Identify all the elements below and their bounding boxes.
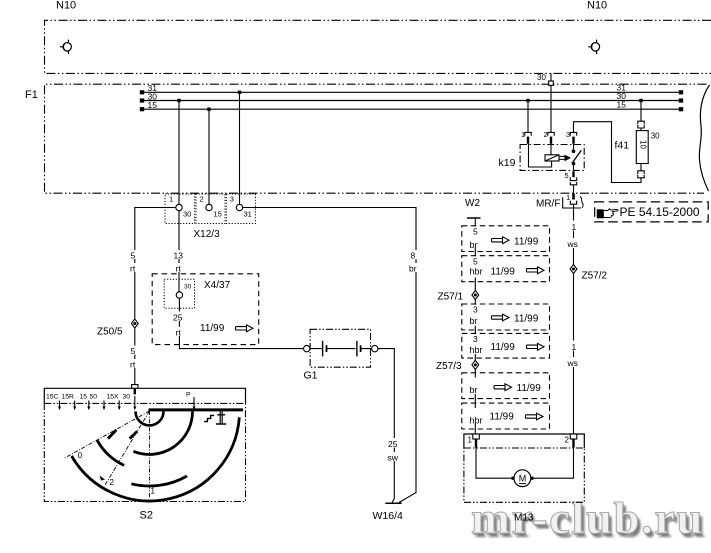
svg-text:f41: f41 [615,140,630,152]
svg-text:11/99: 11/99 [514,314,539,325]
svg-text:15: 15 [80,394,88,401]
svg-text:5: 5 [131,251,136,261]
splice Z57/2 [570,264,577,273]
svg-text:rt: rt [176,328,182,338]
wire label ws [567,238,581,249]
wire Z57/3 to box5 [474,370,476,373]
svg-text:rt: rt [176,264,182,274]
splice box 6 (hbr) [462,403,550,429]
svg-text:15: 15 [617,100,627,110]
S2 contact dash r32 [130,431,138,438]
svg-text:5: 5 [473,227,478,237]
splice box 4 (hbr) [462,333,550,358]
svg-text:br: br [470,385,478,395]
svg-text:P: P [186,392,191,399]
G1 left terminal circle [304,345,310,351]
S2 pointer mark near 2 [100,476,106,481]
svg-text:3: 3 [566,130,570,139]
wire Z50/5 to S2 terminal 30 [134,328,136,384]
S2 terminal arrows [58,396,196,410]
svg-text:11/99: 11/99 [514,237,539,248]
G1 right terminal circle [372,345,378,351]
wire bus15 to X12/3 pin2 [208,109,210,204]
MR/F connector [563,193,583,208]
svg-text:MR/F: MR/F [536,199,560,210]
svg-text:rt: rt [130,264,136,274]
wire stub box4 [474,333,476,360]
wire bus30 to k19 terminal 1 [527,101,529,133]
svg-text:5: 5 [473,256,478,266]
svg-text:11/99: 11/99 [517,383,542,394]
svg-text:br: br [409,264,417,274]
svg-text:3: 3 [473,334,478,344]
S2 contact rail bar [149,408,244,411]
svg-text:Z57/3: Z57/3 [436,361,462,372]
wire label 5 [129,346,138,357]
ground point W16/4 [385,502,401,504]
fuse box F1 dash-dot border [45,84,707,193]
k19 actuating arrow [559,155,571,162]
box2 arrow [527,267,545,274]
wire label 1 [569,221,578,233]
S2 contact arc r60 [97,440,124,465]
svg-text:1: 1 [572,342,577,352]
X4/37 inner dotted box [164,279,194,308]
wire stub box2 [474,256,476,291]
wire N10 to k19 terminal 2 [550,73,552,132]
wire label 25 [387,438,401,449]
M13 motor symbol [514,470,531,487]
f41 lower plug [638,171,644,178]
box4 arrow [527,343,545,350]
wire label 25 [172,312,186,323]
k19 coil wiring [529,144,552,167]
f41 upper plug [638,121,644,128]
svg-text:30: 30 [184,284,192,291]
svg-text:11/99: 11/99 [490,412,515,423]
bus bar 15 [140,100,683,112]
svg-text:5: 5 [131,346,136,356]
M13 pin 2 [570,434,577,448]
wire number 5 [471,227,479,237]
splice box 5 (br) [462,373,550,399]
svg-text:11/99: 11/99 [491,267,516,278]
M13 dash-dot box [464,448,584,502]
svg-text:Z57/2: Z57/2 [582,271,608,282]
k19 terminal 1 plug [525,132,531,143]
splice Z57/1 [472,290,479,299]
wire bus30 to X12/3 pin1 [178,101,180,205]
svg-text:PE 54.15-2000: PE 54.15-2000 [620,205,700,219]
svg-text:1: 1 [169,195,173,204]
svg-text:50: 50 [90,394,98,401]
fuse f41 wire from bus30 [639,99,642,102]
svg-text:ws: ws [567,358,578,368]
svg-text:2: 2 [565,436,570,445]
k19 terminal 5 plug [570,171,576,185]
svg-text:30: 30 [183,210,191,219]
ignition switch S2 solid top outline [44,388,245,403]
svg-text:11/99: 11/99 [491,342,516,353]
wire label 8 [409,250,418,261]
junction dot bus31/X12-3 pin3 [238,91,241,94]
splice box 2 (hbr) [462,256,550,282]
wire Z57/1 to box3 [474,300,476,304]
svg-text:15: 15 [148,100,158,110]
wire label rt [129,359,139,370]
junction dot bus30/k19 term1 [526,99,529,102]
wire label 5 [129,250,138,261]
svg-text:rt: rt [130,360,136,370]
wire label 1 [569,341,578,353]
wire label 13 [172,250,185,261]
wire label rt [174,263,184,274]
svg-text:ws: ws [567,239,578,249]
k19 switch contact dots [572,149,576,153]
S2 contact arc r43 [133,411,192,454]
svg-text:br: br [470,240,478,250]
watermark mr-club.ru [471,493,704,544]
box5 arrow [494,384,512,391]
connector square at F1 border [549,81,554,85]
svg-text:10: 10 [638,140,647,149]
bus bar 31 [140,83,683,95]
splice box 3 (br) [462,304,550,330]
svg-text:30: 30 [537,73,546,82]
splice box 1 (br) [462,226,550,252]
torn-edge squiggle on F1 right [699,85,709,191]
svg-text:hbr: hbr [470,416,483,426]
svg-text:3: 3 [473,305,478,315]
S2 position axis 0 (diagonal dash-dot) [65,411,150,458]
wire bus31 to X12/3 pin3 [239,92,241,204]
wire X12/3 pin3 right and down (8 br) [243,208,416,503]
svg-text:13: 13 [174,251,184,261]
splice Z50/5 [131,319,138,328]
S2 contact arc r75 [131,476,187,486]
svg-text:11/99: 11/99 [200,323,225,334]
connector X12/3 box pin3 [226,194,255,224]
S2 dash-dot box [44,403,245,501]
k19 switch arm [572,150,581,163]
connector X12/3 box pin2 [196,194,225,224]
connector X12/3 box pin1 [165,194,195,224]
X12/3 pin2 circle [206,204,212,210]
splice Z57/3 [472,360,479,369]
X4/37 pin circle [176,292,182,298]
wire stub box5 [474,373,476,403]
svg-text:3: 3 [230,195,234,204]
wire stub box6 [474,403,476,433]
X12/3 pin3 circle [236,204,242,210]
svg-text:br: br [470,316,478,326]
svg-text:W16/4: W16/4 [373,510,404,522]
svg-text:5: 5 [565,171,569,180]
svg-text:hbr: hbr [470,267,483,277]
svg-text:0: 0 [78,451,83,460]
wire number 3 [471,334,479,344]
svg-text:15C: 15C [46,394,59,401]
G1 cell plates [310,341,371,357]
svg-text:G1: G1 [304,370,318,382]
svg-text:2: 2 [200,195,204,204]
motor M13 solid top outline [464,434,584,448]
wire MR/F down to M13 pin2 (1 ws) [573,204,575,433]
svg-text:30: 30 [651,132,660,141]
connector symbol in N10 right [588,40,599,54]
svg-text:X12/3: X12/3 [194,229,221,240]
wire label rt [174,327,184,338]
svg-text:15R: 15R [62,394,75,401]
svg-text:2: 2 [544,130,548,139]
svg-text:2: 2 [110,478,115,487]
wire X12/3 pin1 left to Z50/5 [135,208,176,319]
S2 rotor inner semicircle [136,411,164,425]
connector symbol in N10 left [60,40,71,54]
wire stub box3 [474,304,476,333]
box3 arrow [492,314,510,321]
svg-text:Z50/5: Z50/5 [97,327,123,338]
S2 position axis 2 (diagonal dash-dot) [105,411,149,485]
wire label ws [567,357,581,368]
wire k19 t5 to MR/F [573,185,575,194]
svg-text:S2: S2 [140,510,153,522]
svg-text:N10: N10 [587,0,607,12]
wire number 3 [471,305,479,315]
battery G1 dash-dot box [310,329,370,367]
wire label sw [386,452,401,463]
svg-text:sw: sw [388,453,399,463]
X12/3 pin1 circle [176,204,182,210]
svg-text:1: 1 [572,222,577,232]
wire X4/37 pin down to G1 (25 rt) [179,298,303,348]
svg-text:30: 30 [123,394,131,401]
ground point W2 [467,218,481,226]
k19 terminal 3 plug [570,132,576,143]
svg-text:31: 31 [244,210,252,219]
M13 internal wiring [476,448,574,479]
svg-text:hbr: hbr [470,345,483,355]
k19 terminal 5 wire down [573,164,575,171]
wire label rt [129,263,139,274]
svg-text:F1: F1 [25,89,38,101]
X4/37 arrow [236,325,254,332]
wire G1 to ground W16/4 (25 sw) [378,349,394,503]
svg-text:k19: k19 [499,157,516,169]
S2 terminal 30 plug connector [132,385,138,395]
control unit N10 dash-dot box [45,20,711,73]
k19 coil [545,155,559,161]
svg-text:N10: N10 [56,0,76,12]
M13 pin 1 [473,434,480,448]
pointing hand icon [597,209,618,219]
S2 position axis 1 (vertical dash-dot) [149,411,151,497]
S2 stair-step symbol [204,415,214,421]
svg-text:W2: W2 [465,198,480,209]
relay k19 dash-dot box [520,145,584,171]
k19 terminal 2 plug [548,132,554,143]
S2 contact arc r90 [72,417,240,501]
box1 arrow [492,237,510,244]
junction dot bus15/X12-3 pin2 [207,108,210,111]
svg-text:1: 1 [521,130,525,139]
svg-text:1: 1 [468,436,473,445]
svg-text:Z57/1: Z57/1 [438,292,464,303]
svg-text:1: 1 [566,193,570,202]
bus bar 30 [140,91,683,103]
M13 motor terminals [512,477,515,480]
wire X12/3 pin1 down (13 rt) [178,211,180,292]
svg-text:8: 8 [411,251,416,261]
k19 terminal 3 wire up to f41 loop [574,122,642,183]
svg-text:1: 1 [151,487,156,496]
svg-text:X4/37: X4/37 [204,280,231,291]
svg-text:25: 25 [173,313,183,323]
f41 fuse body [636,131,648,164]
svg-text:M13: M13 [514,513,534,524]
junction dot bus30/X12-3 pin1 [177,99,180,102]
box6 arrow [526,413,544,420]
svg-text:25: 25 [388,439,398,449]
svg-text:15: 15 [214,210,222,219]
svg-text:M: M [519,474,527,484]
wire stub box1 [474,226,476,256]
wire label br [408,263,420,274]
S2 contact dash r44 [108,430,116,439]
S2 steering-lock symbol [216,411,226,425]
wire number 5 [471,256,479,266]
connector X4/37 outer dashed box [152,274,259,345]
pointer box PE 54.15-2000 dashed border [595,202,709,222]
svg-text:15X: 15X [107,394,120,401]
